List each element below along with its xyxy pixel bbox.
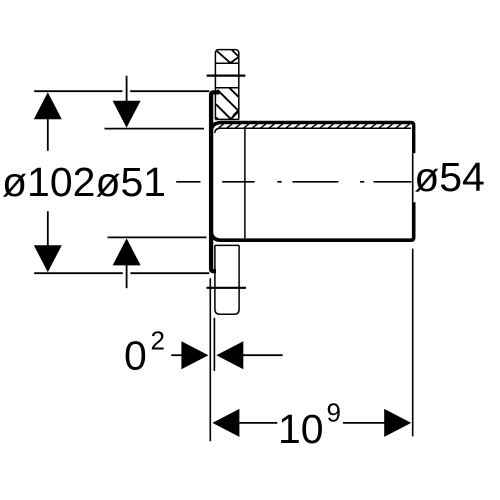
dim ø51 extension line top	[105, 128, 205, 130]
tube outline bottom (thick)	[211, 202, 414, 240]
dim ø102 arrow up	[34, 92, 62, 119]
break line lower	[207, 287, 247, 289]
gasket hatch upper	[217, 50, 239, 63]
dim ø51 arrow up	[113, 238, 141, 265]
gasket section lower piece outline	[215, 245, 239, 314]
gasket hatch lower	[216, 88, 239, 120]
gasket hatch bottom boundary	[215, 118, 238, 120]
dim 0.2 arrow right	[181, 341, 208, 369]
tube outline top (thick)	[211, 123, 414, 154]
dim 10.9 arrow left	[212, 409, 239, 437]
flange plate (thick)	[211, 92, 219, 271]
dim 0.2 arrow left	[216, 341, 243, 369]
dim 10.9 arrow right	[384, 409, 411, 437]
svg-text:10: 10	[278, 406, 324, 452]
svg-text:ø54: ø54	[414, 154, 485, 200]
dim ø51 arrow down	[113, 101, 141, 128]
dim 0.2 extension line left	[209, 278, 211, 441]
tube wall hatch band	[219, 124, 410, 128]
dim 10.9 dimension line	[239, 422, 385, 424]
dim ø102 arrow down	[34, 245, 62, 272]
dim ø51 dimension line	[126, 76, 128, 289]
dim ø102 dimension line	[47, 118, 49, 246]
centerline dash-dot	[176, 181, 411, 183]
dim 10.9 extension line right	[412, 153, 414, 436]
dim 0.2 extension line right	[213, 318, 215, 371]
svg-text:9: 9	[327, 397, 341, 427]
break line upper	[207, 74, 246, 76]
dim ø102 extension line bottom	[34, 272, 209, 274]
gasket section upper piece outline	[215, 50, 238, 120]
tube wall inner line top	[215, 128, 411, 133]
dim ø51 extension line bottom	[108, 236, 207, 238]
svg-text:2: 2	[151, 326, 165, 356]
dim ø102 extension line top	[34, 90, 209, 92]
svg-text:0: 0	[124, 332, 147, 378]
dim 0.2 dimension line	[171, 354, 282, 356]
socket inner end line	[244, 128, 246, 238]
svg-text:ø102ø51: ø102ø51	[2, 159, 166, 205]
